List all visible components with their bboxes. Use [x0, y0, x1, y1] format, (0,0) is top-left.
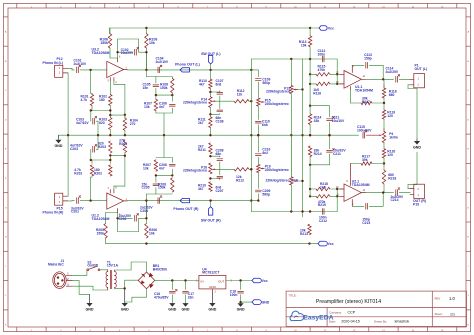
- junction R115 left: [309, 73, 311, 75]
- junction R109 top: [145, 27, 147, 29]
- wire input bias down: [91, 70, 92, 94]
- svg-text:CCP: CCP: [348, 311, 356, 315]
- resistor R117: [351, 97, 385, 105]
- junction rail P12col: [67, 134, 69, 136]
- svg-text:C211: C211: [333, 152, 341, 156]
- capacitor C105: [143, 83, 159, 96]
- resistor R206: [145, 224, 157, 238]
- svg-text:150k: 150k: [100, 41, 108, 45]
- capacitor C205: [142, 175, 159, 189]
- resistor R211: [198, 143, 212, 154]
- svg-text:C204: C204: [140, 209, 148, 213]
- junction P14 bottom: [209, 113, 211, 115]
- junction Vcc port L: [309, 27, 311, 29]
- port Vcc PSU: [252, 278, 268, 283]
- junction R116 left: [309, 83, 311, 85]
- wire C104 to ports: [161, 69, 258, 71]
- svg-text:100n: 100n: [318, 53, 326, 57]
- wire colA branch R: [209, 177, 220, 179]
- resistor R217: [351, 155, 385, 166]
- wire P10 out: [409, 192, 411, 194]
- svg-text:Vcc: Vcc: [328, 242, 334, 246]
- junction R112 right: [250, 100, 252, 102]
- svg-text:REV: REV: [435, 297, 441, 301]
- wire outnode up R: [146, 188, 172, 201]
- capacitor C210: [255, 135, 270, 164]
- svg-text:100n: 100n: [230, 293, 238, 297]
- wire J1 neutral: [72, 286, 107, 290]
- resistor R207: [143, 160, 158, 171]
- capacitor C110: [255, 106, 269, 135]
- company cell: [329, 311, 356, 315]
- resistor R110: [199, 70, 212, 92]
- svg-text:Sheet:: Sheet:: [435, 312, 443, 316]
- capacitor C115: [357, 125, 372, 138]
- resistor R118: [382, 84, 396, 103]
- svg-text:1k5: 1k5: [320, 185, 326, 189]
- capacitor C17: [183, 281, 194, 304]
- ground GND right: [413, 139, 421, 185]
- wire bias row2 R: [90, 154, 125, 161]
- junction P16 top: [209, 155, 211, 157]
- wire S2 to T1: [100, 269, 108, 271]
- svg-text:Phono IN (L): Phono IN (L): [43, 61, 63, 65]
- capacitor C113: [364, 53, 372, 68]
- svg-text:6n8: 6n8: [216, 82, 222, 86]
- svg-text:2u2/10V: 2u2/10V: [156, 60, 169, 64]
- wire col C top R: [257, 194, 259, 201]
- svg-text:GND: GND: [55, 144, 63, 148]
- svg-text:GND: GND: [262, 301, 270, 305]
- EasyEDA logo: [290, 311, 334, 321]
- svg-text:180: 180: [99, 98, 105, 102]
- svg-text:Preamplifier (stereo) KIT014: Preamplifier (stereo) KIT014: [316, 299, 381, 305]
- svg-text:GND: GND: [121, 307, 129, 311]
- wire P15 pin1 to C201: [68, 200, 75, 202]
- junction rail colA: [209, 134, 211, 136]
- svg-text:10u/10V: 10u/10V: [332, 119, 345, 123]
- svg-text:R202: R202: [94, 171, 102, 175]
- wire U4 gnd: [211, 289, 213, 293]
- wire U1.1 feedback: [352, 65, 383, 79]
- svg-text:GND: GND: [168, 308, 176, 312]
- svg-text:220k/log/stereo: 220k/log/stereo: [183, 101, 207, 105]
- ground GND C18: [237, 302, 245, 312]
- junction Vcc port R: [308, 242, 310, 244]
- capacitor C112: [318, 49, 326, 62]
- wire bias row1 R: [91, 160, 111, 163]
- resistor R212: [234, 168, 251, 183]
- junction C111 tap: [309, 105, 311, 107]
- port Phono OUT L: [175, 62, 200, 72]
- svg-text:Drawn By:: Drawn By:: [374, 320, 387, 324]
- wire BR1 minus: [125, 289, 147, 302]
- wire colA branch: [209, 91, 220, 93]
- svg-text:120: 120: [387, 114, 393, 118]
- wire col C top: [257, 70, 259, 77]
- svg-text:1.0: 1.0: [449, 296, 455, 301]
- svg-text:B40C500: B40C500: [153, 268, 167, 272]
- wire C211 branch: [310, 154, 329, 165]
- svg-text:R218: R218: [388, 176, 396, 180]
- wire U4 out: [226, 280, 252, 282]
- resistor R208: [158, 178, 174, 192]
- junction GND node: [239, 301, 241, 303]
- svg-text:220k/log/stereo: 220k/log/stereo: [266, 179, 290, 183]
- junction feedback-inv: [116, 51, 118, 53]
- wire Vminus to R204 col R: [114, 153, 125, 190]
- capacitor C207: [216, 162, 224, 193]
- svg-text:4k7: 4k7: [198, 187, 204, 191]
- wire RC row mid R: [155, 174, 174, 176]
- resistor R219: [310, 195, 342, 208]
- junction rail R104: [124, 134, 126, 136]
- svg-text:GND: GND: [208, 307, 216, 311]
- svg-text:GND: GND: [237, 308, 245, 312]
- svg-text:R214: R214: [314, 152, 322, 156]
- capacitor C106: [159, 95, 175, 113]
- wire R212 row: [216, 168, 234, 170]
- svg-text:150p: 150p: [364, 56, 372, 60]
- sheet cell: [435, 312, 456, 316]
- svg-text:R203: R203: [98, 145, 106, 149]
- wire T1 sec top: [115, 262, 147, 272]
- resistor R106: [100, 28, 112, 48]
- svg-text:4.7k: 4.7k: [81, 98, 88, 102]
- potentiometer P19: [257, 164, 289, 172]
- connector P15: [43, 193, 68, 214]
- ground GND C17: [182, 303, 190, 312]
- svg-text:560p: 560p: [262, 81, 270, 85]
- wire feedback up R: [145, 201, 147, 220]
- capacitor C211: [327, 135, 347, 156]
- junction R212 right: [250, 168, 252, 170]
- junction R204 row: [124, 155, 126, 157]
- svg-text:kmastrok: kmastrok: [395, 320, 410, 324]
- svg-text:TITLE:: TITLE:: [288, 293, 297, 297]
- capacitor C104: [156, 57, 169, 73]
- svg-text:39k: 39k: [362, 158, 368, 162]
- ground GND T1: [121, 288, 129, 311]
- bridge rectifier BR1: [138, 264, 167, 289]
- wire R109 to out node: [145, 48, 147, 70]
- svg-text:1k/lin: 1k/lin: [389, 135, 398, 139]
- junction out2 fb: [382, 191, 384, 193]
- date cell: [329, 320, 409, 324]
- svg-text:220k/log/stereo: 220k/log/stereo: [183, 169, 207, 173]
- junction out1 fb: [382, 78, 384, 80]
- svg-text:13k: 13k: [143, 166, 149, 170]
- svg-text:R211: R211: [198, 148, 206, 152]
- junction colD top: [290, 58, 292, 60]
- svg-text:TDA1054M: TDA1054M: [92, 51, 110, 55]
- capacitor C214: [391, 188, 411, 202]
- port Vcc L: [310, 26, 334, 31]
- resistor R107: [144, 95, 158, 113]
- svg-text:Phono IN (R): Phono IN (R): [43, 210, 64, 214]
- wire U1.1 pin7 down: [350, 90, 352, 104]
- wire colF mid: [309, 74, 311, 114]
- connector P10: [410, 184, 426, 206]
- wire C115 rail: [336, 134, 359, 136]
- wire RC row mid: [155, 94, 174, 96]
- svg-text:Mains IEC: Mains IEC: [48, 262, 64, 266]
- svg-text:J: J: [5, 295, 6, 297]
- svg-text:2020-04-15: 2020-04-15: [341, 320, 359, 324]
- capacitor C109: [255, 78, 270, 98]
- wire Vcc rail R: [106, 238, 310, 244]
- svg-text:2u2/10V: 2u2/10V: [74, 62, 87, 66]
- junction rail C103: [97, 134, 99, 136]
- op-amp U1.1: [336, 65, 373, 92]
- junction out node L: [145, 69, 147, 71]
- wire bias row2: [90, 109, 125, 116]
- resistor R115: [310, 65, 342, 77]
- resistor R210: [198, 182, 212, 191]
- junction T1 sec gnd: [124, 287, 126, 289]
- resistor R119: [382, 103, 395, 128]
- svg-text:2u2/25V: 2u2/25V: [386, 70, 399, 74]
- svg-text:6n8: 6n8: [262, 123, 268, 127]
- svg-text:C214: C214: [391, 198, 399, 202]
- junction R216 left: [309, 188, 311, 190]
- ground GND U4: [208, 293, 216, 311]
- wire feedback box bottom R: [118, 213, 139, 232]
- wire T1 sec bottom: [115, 280, 139, 288]
- wire C111 branch: [310, 106, 329, 117]
- ground GND J1: [86, 294, 94, 311]
- ground GND C16: [168, 303, 176, 312]
- wire P12 pin2 down: [67, 73, 69, 135]
- wire Vminus to R104 col: [114, 81, 125, 118]
- junction chain R117: [383, 102, 385, 104]
- wire P1 gnd: [408, 85, 417, 139]
- capacitor C212: [319, 209, 327, 223]
- op-amp U1.2: [92, 188, 128, 222]
- resistor R205: [96, 224, 107, 238]
- svg-text:470k: 470k: [318, 68, 326, 72]
- svg-text:68n: 68n: [216, 152, 222, 156]
- wire U1.2 out: [127, 200, 161, 202]
- wire U2.1 feedback: [352, 193, 383, 207]
- svg-text:560p: 560p: [262, 192, 270, 196]
- svg-text:P18: P18: [292, 179, 298, 183]
- svg-text:C205: C205: [142, 186, 150, 190]
- svg-text:C108: C108: [216, 119, 224, 123]
- potentiometer P16: [183, 163, 216, 174]
- svg-text:8n2: 8n2: [262, 151, 268, 155]
- wire tone top: [251, 58, 338, 85]
- wire C201 to opamp: [91, 200, 107, 202]
- capacitor C101: [74, 59, 91, 73]
- resistor R204: [119, 139, 127, 153]
- svg-text:R219: R219: [318, 203, 326, 207]
- svg-text:470u/35V: 470u/35V: [154, 296, 169, 300]
- resistor R214: [308, 146, 321, 157]
- capacitor C204: [140, 196, 162, 213]
- wire mid rail: [59, 134, 337, 136]
- junction SW OUT R: [209, 199, 211, 201]
- wire R206 to out node: [145, 201, 147, 224]
- svg-text:33n: 33n: [188, 296, 194, 300]
- junction colB R112r: [250, 168, 252, 170]
- connector P12: [43, 57, 68, 77]
- capacitor C107: [216, 79, 224, 109]
- svg-text:220k/log/stereo: 220k/log/stereo: [266, 90, 290, 94]
- svg-text:C203: C203: [70, 147, 78, 151]
- svg-text:33k: 33k: [314, 119, 320, 123]
- wire P10 gnd: [408, 185, 417, 189]
- port Vcc R: [310, 241, 334, 246]
- junction SW OUT L: [209, 69, 211, 71]
- capacitor C206: [159, 158, 175, 176]
- svg-text:680: 680: [389, 93, 395, 97]
- svg-text:270: 270: [130, 122, 136, 126]
- title block frame: [286, 291, 466, 326]
- junction C211 tap: [309, 164, 311, 166]
- wire R205 to inv input: [106, 213, 118, 224]
- svg-text:Vcc: Vcc: [328, 27, 334, 31]
- wire RC bottom R: [156, 135, 172, 157]
- wire J1 earth: [72, 281, 89, 295]
- svg-text:Vcc: Vcc: [262, 279, 268, 283]
- wire outnode down: [146, 70, 172, 83]
- resistor R101: [81, 93, 94, 107]
- svg-text:GND: GND: [209, 285, 217, 289]
- resistor R108: [160, 77, 174, 96]
- junction R206 bottom: [145, 242, 147, 244]
- wire feedback box top: [118, 39, 139, 58]
- junction input node R: [89, 199, 91, 201]
- wire colD lower: [290, 135, 292, 177]
- svg-text:GND: GND: [86, 307, 94, 311]
- junction colB rail: [250, 134, 252, 136]
- svg-text:C202: C202: [119, 217, 127, 221]
- svg-text:100u/10V: 100u/10V: [357, 128, 372, 132]
- svg-text:10k: 10k: [149, 231, 155, 235]
- junction C17 tap: [184, 279, 186, 281]
- svg-text:R201: R201: [74, 171, 82, 175]
- capacitor C108: [210, 110, 223, 123]
- junction R104 row: [124, 114, 126, 116]
- svg-text:10u/25V: 10u/25V: [121, 51, 134, 55]
- svg-text:C213: C213: [362, 221, 370, 225]
- resistor R203: [98, 141, 112, 153]
- svg-text:GND: GND: [182, 308, 190, 312]
- junction feedback-inv R: [116, 217, 118, 219]
- resistor R112: [234, 89, 251, 103]
- svg-text:TDA1054M: TDA1054M: [352, 183, 370, 187]
- wire wiper P4: [367, 134, 382, 136]
- potentiometer P18: [266, 135, 298, 211]
- resistor R213: [300, 224, 311, 236]
- junction colD bottom: [290, 210, 292, 212]
- wire U3.2 out: [127, 69, 161, 71]
- svg-text:OUT (L): OUT (L): [415, 67, 428, 71]
- wire U1.1 out: [366, 78, 394, 80]
- port Phono OUT R: [173, 199, 198, 212]
- svg-text:C207: C207: [216, 189, 224, 193]
- potentiometer P15: [257, 98, 289, 106]
- junction C18 tap: [239, 279, 241, 281]
- junction out node R: [145, 199, 147, 201]
- svg-text:On/Off: On/Off: [87, 264, 98, 268]
- capacitor C18: [230, 281, 244, 303]
- junction rail RCnet: [163, 134, 165, 136]
- connector P1: [410, 64, 427, 88]
- junction R219 left: [309, 195, 311, 197]
- resistor R113: [299, 28, 312, 74]
- capacitor C114: [386, 67, 411, 83]
- svg-text:150k: 150k: [160, 86, 168, 90]
- capacitor C208: [210, 149, 223, 161]
- wire feedback down: [145, 51, 147, 70]
- svg-text:TDA1054M: TDA1054M: [355, 88, 373, 92]
- svg-text:P10: P10: [413, 203, 419, 207]
- svg-text:120: 120: [387, 153, 393, 157]
- svg-text:4u7/10V: 4u7/10V: [76, 121, 89, 125]
- capacitor C102: [118, 47, 147, 55]
- junction rail R103: [109, 134, 111, 136]
- junction colC rail R: [257, 134, 259, 136]
- junction chain R217: [383, 162, 385, 164]
- svg-text:150k: 150k: [97, 231, 105, 235]
- wire BR1 plus: [155, 279, 199, 281]
- junction colD rail: [290, 134, 292, 136]
- wire Vcc rail L: [110, 28, 311, 34]
- connector J1 Mains IEC: [48, 259, 72, 288]
- wire C101 to opamp: [91, 69, 107, 71]
- resistor R116: [310, 82, 342, 95]
- resistor R104: [123, 115, 138, 135]
- svg-text:SW OUT (R): SW OUT (R): [201, 218, 221, 222]
- svg-text:15V:1A: 15V:1A: [107, 264, 119, 268]
- junction C111 rail: [328, 134, 330, 136]
- svg-text:2k7: 2k7: [198, 121, 204, 125]
- resistor R201: [74, 165, 93, 176]
- svg-text:12k: 12k: [237, 92, 243, 96]
- svg-text:R213: R213: [300, 232, 308, 236]
- svg-text:150k: 150k: [158, 186, 166, 190]
- svg-text:SW OUT (L): SW OUT (L): [201, 52, 220, 56]
- wire tone bottom: [251, 188, 338, 213]
- svg-text:820: 820: [99, 121, 105, 125]
- svg-text:4n7: 4n7: [159, 105, 165, 109]
- svg-text:G: G: [5, 207, 7, 209]
- ground GND mid-left: [55, 135, 63, 148]
- svg-text:4n7: 4n7: [159, 166, 165, 170]
- junction C211 rail: [328, 134, 330, 136]
- svg-text:10k: 10k: [149, 41, 155, 45]
- wire P13 wiper: [298, 59, 304, 217]
- svg-text:OUT: OUT: [218, 280, 225, 284]
- potentiometer P14: [183, 92, 216, 114]
- wire input bias up R: [91, 177, 92, 201]
- svg-text:4k7: 4k7: [199, 82, 205, 86]
- svg-text:13k: 13k: [144, 105, 150, 109]
- capacitor C203: [70, 135, 98, 160]
- svg-text:Phono OUT (R): Phono OUT (R): [173, 207, 198, 211]
- svg-text:1/1: 1/1: [450, 312, 455, 316]
- title text: [288, 293, 381, 305]
- rev cell: [435, 296, 456, 301]
- switch S2: [87, 260, 100, 270]
- op-amp U3.2: [92, 48, 128, 85]
- wire P15 pin2 up: [67, 135, 69, 196]
- svg-text:19k: 19k: [301, 43, 307, 47]
- svg-text:R212: R212: [236, 178, 244, 182]
- regulator U4: [196, 267, 232, 293]
